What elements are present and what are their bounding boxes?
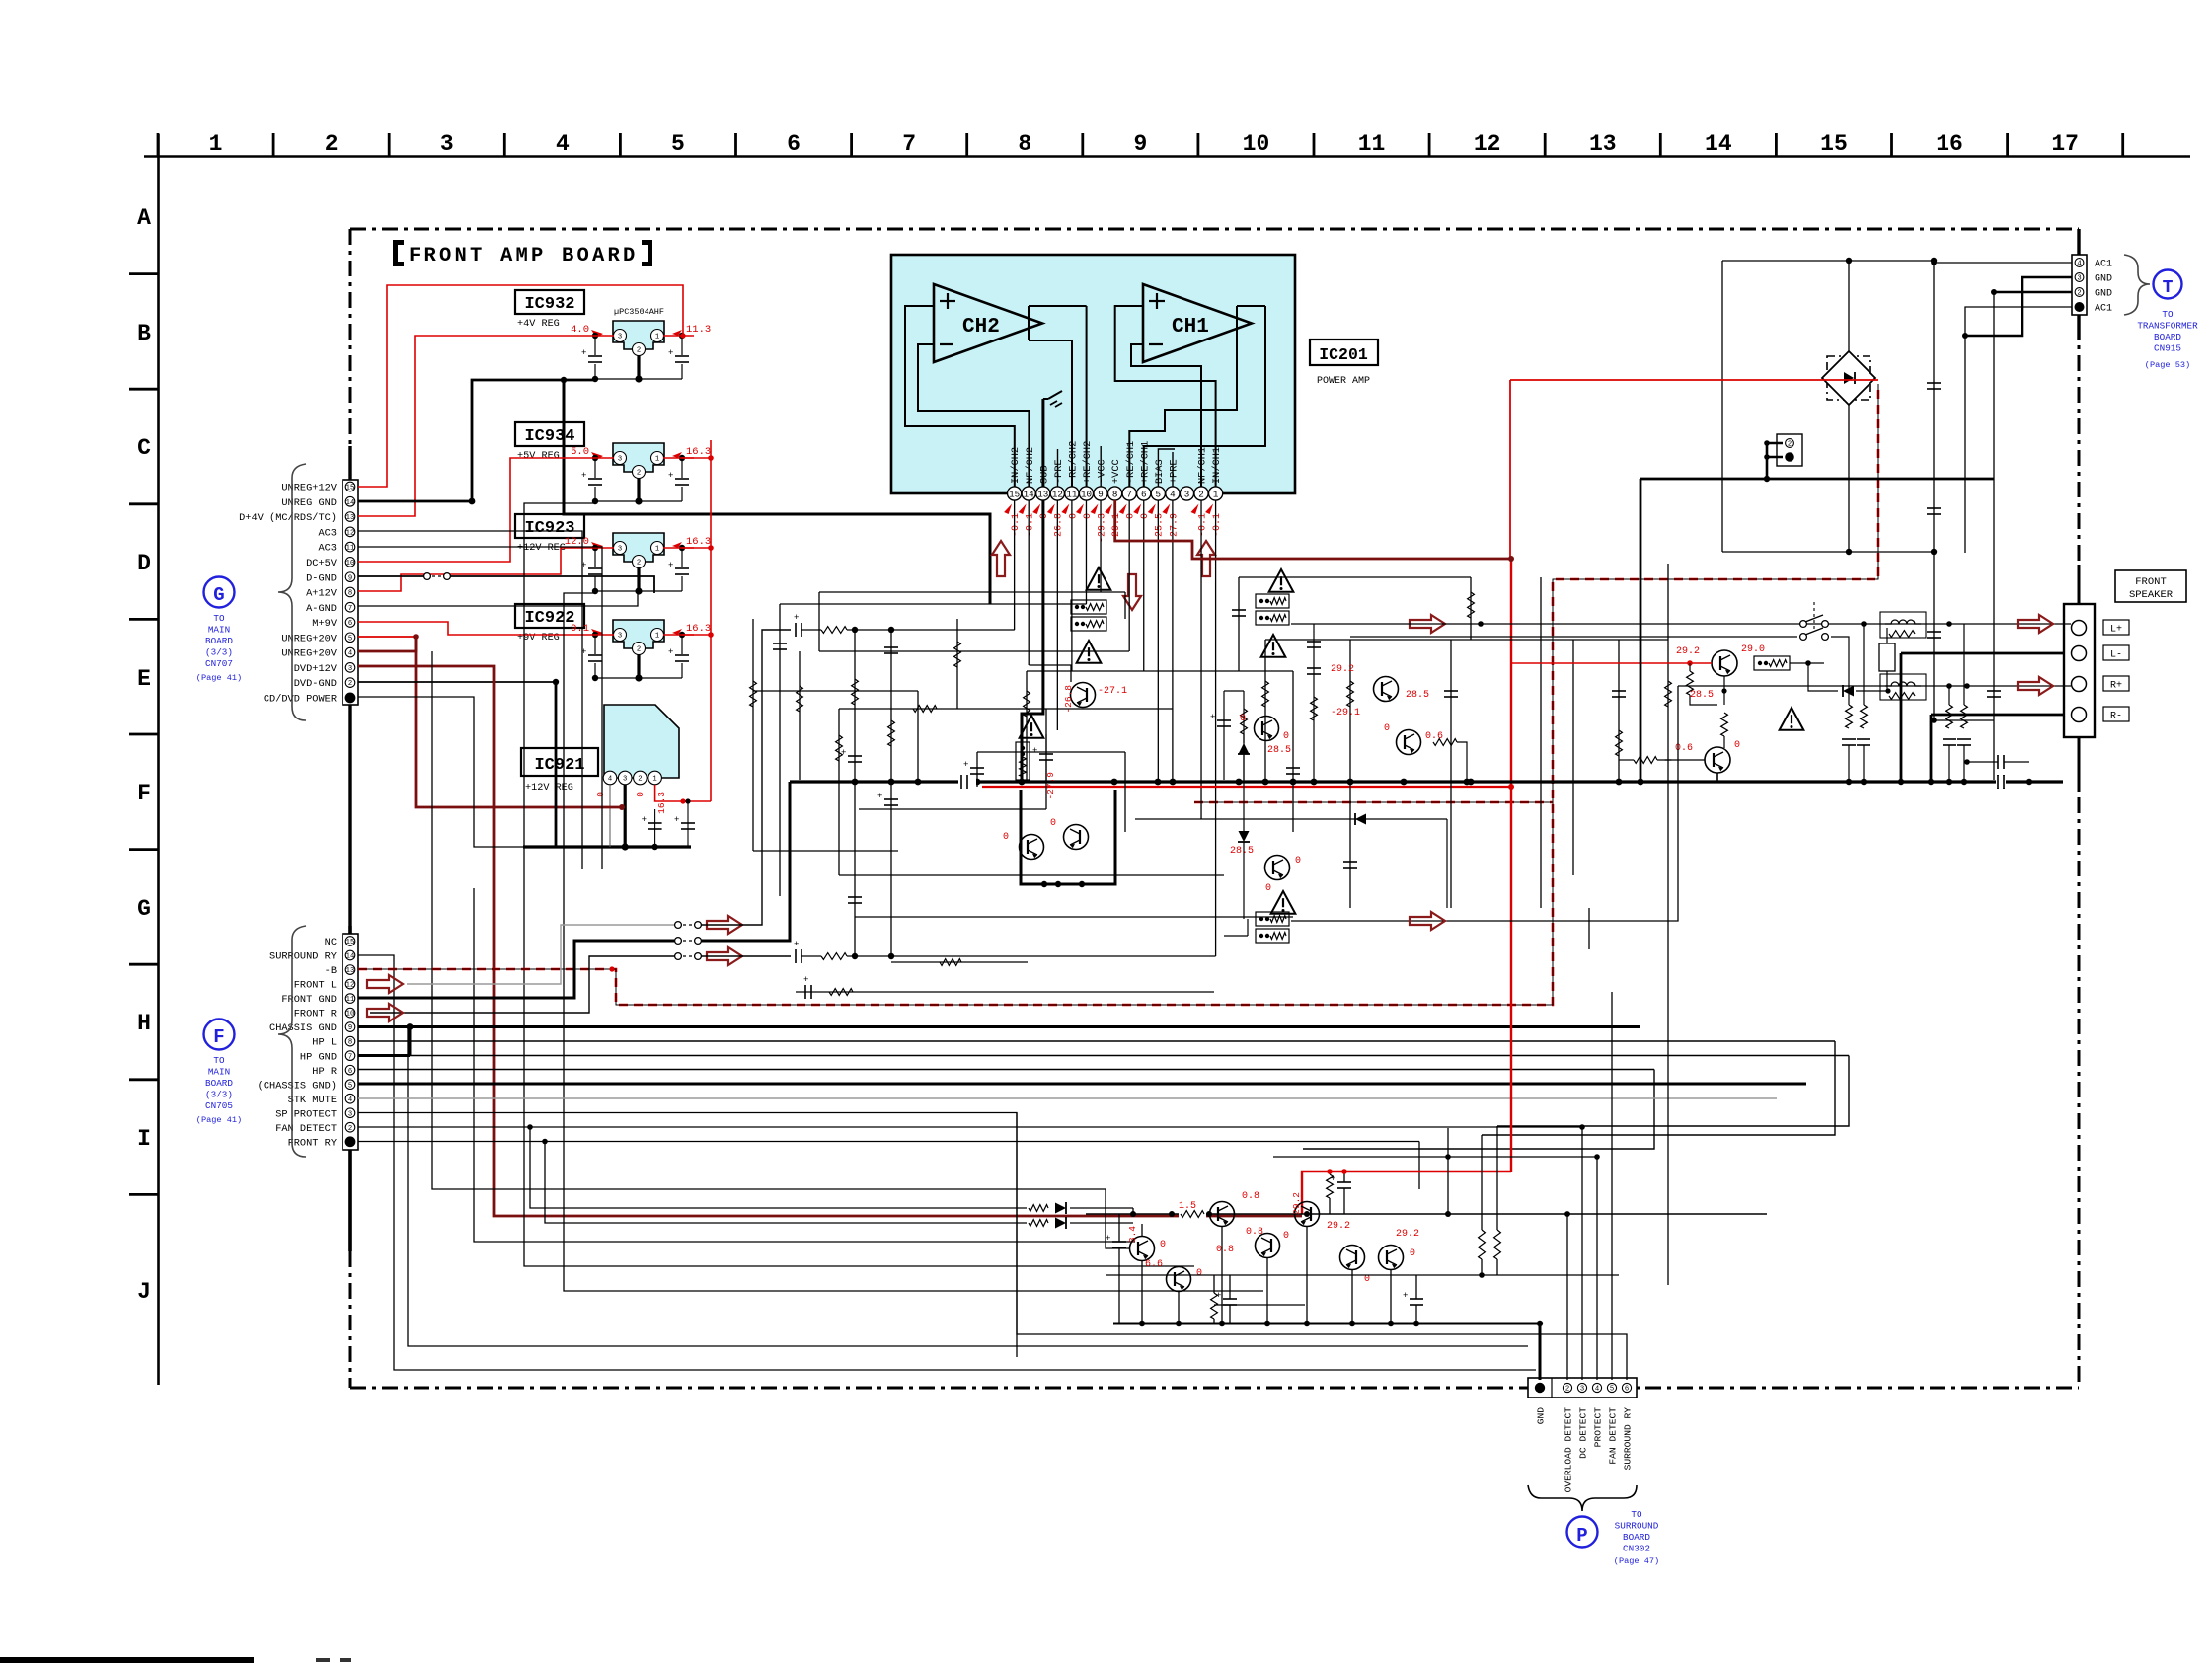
svg-text:13: 13 bbox=[1037, 489, 1048, 499]
svg-text:+5V REG: +5V REG bbox=[517, 451, 560, 462]
svg-text:2: 2 bbox=[325, 131, 339, 157]
pin 9 D-GND bbox=[345, 572, 355, 582]
resistor Q2 base bbox=[1634, 757, 1657, 764]
transistor Q mid3 bbox=[1020, 835, 1044, 860]
wire vertical link b bbox=[1581, 1128, 1583, 1157]
svg-text:0: 0 bbox=[595, 792, 606, 797]
svg-text:-B: -B bbox=[325, 965, 337, 977]
svg-text:+: + bbox=[1403, 1291, 1408, 1301]
svg-text:2: 2 bbox=[348, 1125, 352, 1133]
signal arrow R feed bbox=[1410, 912, 1445, 930]
wire aux row bbox=[891, 961, 1028, 963]
wire A+12V long red run bbox=[400, 574, 402, 591]
resistor bbox=[1241, 709, 1248, 734]
svg-text:2: 2 bbox=[1198, 489, 1204, 499]
IC932 pin 2 bbox=[633, 343, 646, 356]
fusible resistor bbox=[1071, 617, 1106, 631]
svg-text:3: 3 bbox=[618, 633, 622, 641]
wire relay R to coupling network bbox=[701, 955, 791, 957]
16.3V rail vertical bbox=[683, 800, 711, 802]
wire ground bus right extension bbox=[1668, 780, 2063, 783]
wire bus IC934 gnd drop bbox=[524, 503, 1194, 1266]
IC934 pin 3 bbox=[614, 452, 627, 465]
svg-text:0: 0 bbox=[1295, 856, 1301, 867]
wire red IC922 pin1 to 16.3V rail bbox=[682, 634, 711, 636]
wire IC201 pin 15 drop bbox=[1014, 500, 1016, 630]
svg-text:-26.8: -26.8 bbox=[1063, 685, 1074, 714]
wire F connector top stub bbox=[348, 926, 351, 934]
wire mesh left links to switch rows bbox=[858, 932, 860, 934]
svg-text:0: 0 bbox=[1283, 731, 1289, 742]
pin 7 HP GND bbox=[345, 1051, 355, 1061]
svg-text:16.3: 16.3 bbox=[656, 792, 667, 814]
svg-text:-0.1: -0.1 bbox=[1197, 513, 1208, 537]
wire IC201 pin5 BIAS stub bbox=[1158, 449, 1175, 487]
capacitor bbox=[970, 767, 984, 769]
wire SP PROTECT run bbox=[358, 1113, 1627, 1381]
svg-text:9: 9 bbox=[1133, 131, 1147, 157]
svg-text:14: 14 bbox=[1705, 131, 1732, 157]
wire IC201 pin8 +VCC red thick bbox=[1115, 500, 1511, 559]
pin 13 -B bbox=[345, 965, 355, 975]
capacitor loop right lower bbox=[1927, 507, 1941, 509]
wire CHASSIS GND bottom run bbox=[408, 1027, 1528, 1347]
svg-text:+: + bbox=[581, 471, 586, 481]
capacitor polarized bbox=[884, 798, 898, 800]
zobel resistor Lb bbox=[1863, 624, 1865, 705]
relay switch L2 bbox=[1800, 634, 1807, 641]
speaker zobel caps right bbox=[1997, 755, 1999, 769]
capacitor series on main bus bbox=[958, 775, 976, 789]
svg-text:15: 15 bbox=[346, 939, 355, 946]
wire top-right loop right bbox=[1933, 261, 1935, 552]
svg-text:A-GND: A-GND bbox=[306, 603, 337, 615]
wire Qd base feed bbox=[1106, 1189, 1129, 1248]
svg-text:+: + bbox=[668, 647, 673, 657]
svg-text:P: P bbox=[1576, 1525, 1587, 1547]
wire relay GND return to bus bbox=[701, 782, 790, 941]
resistor cluster r1 bbox=[1327, 1174, 1334, 1198]
speaker cap lower bbox=[1997, 775, 1999, 789]
wire STK MUTE run bbox=[358, 1097, 1777, 1099]
IC921 pin 4 bbox=[603, 771, 617, 785]
svg-text:M+9V: M+9V bbox=[312, 618, 338, 630]
svg-text:-25.5: -25.5 bbox=[1155, 513, 1166, 543]
signal arrow FRONT R pin bbox=[367, 1004, 403, 1021]
svg-text:16: 16 bbox=[1936, 131, 1963, 157]
wire DVD+12V thick red run bbox=[358, 666, 1302, 1216]
wire red D+4V to IC932 pin3 bbox=[358, 336, 595, 516]
svg-text:UNREG+20V: UNREG+20V bbox=[281, 633, 337, 644]
svg-text:3: 3 bbox=[348, 665, 352, 673]
wire bbox=[1292, 671, 1294, 832]
IC922 pin 1 bbox=[651, 629, 664, 642]
wire -B dashed branch bbox=[1194, 801, 1553, 804]
wire bbox=[1572, 640, 1574, 875]
wire IC922 left cap branch bbox=[594, 635, 596, 678]
svg-text:CN915: CN915 bbox=[2154, 343, 2181, 354]
wire FRONT R to relay bbox=[370, 956, 675, 1013]
wire bbox=[1349, 640, 1351, 908]
capacitor IC922 left bbox=[587, 654, 603, 663]
capacitor cluster c4 bbox=[1410, 1298, 1423, 1300]
svg-text:6: 6 bbox=[787, 131, 801, 157]
IC921 pin 1 bbox=[648, 771, 662, 785]
wire FRONT L to relay bbox=[407, 925, 675, 984]
wire bbox=[1667, 564, 1669, 1285]
svg-text:+: + bbox=[668, 561, 673, 570]
svg-text:D: D bbox=[137, 551, 151, 576]
svg-text:-0.1: -0.1 bbox=[1026, 513, 1036, 537]
svg-text:A+12V: A+12V bbox=[306, 588, 338, 600]
svg-text:4: 4 bbox=[608, 776, 612, 784]
wire bbox=[819, 650, 1129, 652]
wire red top feed bbox=[1510, 379, 1878, 381]
svg-text:+: + bbox=[877, 792, 882, 801]
svg-text:HP GND: HP GND bbox=[300, 1051, 337, 1063]
svg-text:3: 3 bbox=[1184, 489, 1190, 499]
wire DC DETECT to P3 bbox=[1581, 1127, 1583, 1380]
wire dark red feed into IC921 area bbox=[553, 806, 622, 809]
svg-text:2: 2 bbox=[348, 680, 352, 688]
pin 14 SURROUND RY bbox=[345, 950, 355, 960]
svg-text:4.0: 4.0 bbox=[571, 324, 589, 336]
wire R+ feed from mesh bbox=[1291, 686, 1678, 921]
svg-text:+: + bbox=[794, 940, 799, 949]
resistor bbox=[1262, 681, 1269, 707]
svg-text:CHASSIS GND: CHASSIS GND bbox=[269, 1022, 337, 1034]
svg-text:+: + bbox=[674, 815, 679, 825]
pin 7 A-GND bbox=[345, 602, 355, 612]
svg-text:29.2: 29.2 bbox=[1396, 1229, 1419, 1240]
wire IC934 pin2 to bus bbox=[637, 478, 640, 501]
transistor Qc bbox=[1295, 1202, 1320, 1227]
wire line with diode bbox=[1135, 818, 1447, 820]
wire speaker connector stub top bbox=[2078, 565, 2081, 604]
wire CD power drop 2 bbox=[474, 888, 1135, 1242]
IC201 pin 12 -PRE bbox=[1050, 487, 1064, 500]
wire UNREG GND to IC932 ground bus bbox=[358, 380, 596, 501]
svg-text:2: 2 bbox=[1788, 441, 1792, 449]
wire cluster main rail bbox=[1086, 1213, 1767, 1215]
svg-text:8: 8 bbox=[1018, 131, 1031, 157]
wire IC934 bus left hook bbox=[594, 502, 596, 504]
capacitor polarized bbox=[848, 755, 862, 757]
svg-text:29.2: 29.2 bbox=[1676, 646, 1700, 657]
wire (CHASSIS GND) thick run bbox=[358, 1083, 1806, 1086]
regulator IC932 label box bbox=[515, 290, 584, 314]
wire IC934 pin3 feed bbox=[595, 457, 614, 459]
wire Qe base link bbox=[1141, 1224, 1143, 1237]
svg-text:GND: GND bbox=[1536, 1407, 1547, 1425]
svg-text:9: 9 bbox=[1098, 489, 1104, 499]
wire bbox=[1026, 671, 1028, 780]
capacitor bbox=[1286, 767, 1300, 769]
svg-text:29.2: 29.2 bbox=[1331, 664, 1354, 675]
wire IC201 CH2 +input from pin15 bbox=[905, 306, 1015, 487]
svg-text:3: 3 bbox=[440, 131, 454, 157]
wire OVERLOAD DETECT drop bbox=[1566, 1214, 1568, 1380]
svg-text:6: 6 bbox=[1141, 489, 1147, 499]
svg-text:8: 8 bbox=[1112, 489, 1118, 499]
svg-text:29.1: 29.1 bbox=[1111, 513, 1122, 537]
svg-text:-0.1: -0.1 bbox=[1011, 513, 1022, 537]
svg-text:CN707: CN707 bbox=[205, 658, 233, 669]
terminal L+ bbox=[2072, 621, 2087, 636]
svg-text:8: 8 bbox=[348, 590, 352, 598]
wire bbox=[1264, 640, 1266, 780]
pin 10 FRONT R bbox=[345, 1008, 355, 1018]
wire cluster links bbox=[1221, 1227, 1223, 1323]
svg-text:9: 9 bbox=[348, 1024, 352, 1032]
svg-text:(Page 53): (Page 53) bbox=[2145, 360, 2190, 370]
svg-text:0: 0 bbox=[1240, 714, 1246, 724]
zobel resistor La bbox=[1848, 686, 1850, 705]
wire +VCC red vertical bbox=[1510, 559, 1512, 1172]
resistor series CH2 in bbox=[821, 627, 847, 634]
signal arrow up near pin15 bbox=[992, 541, 1010, 576]
wire R+ line bbox=[1678, 685, 2071, 687]
svg-text:3: 3 bbox=[618, 334, 622, 341]
wire bbox=[1239, 576, 1471, 578]
svg-text:-RE/CH1: -RE/CH1 bbox=[1125, 441, 1137, 484]
wire bbox=[799, 651, 801, 780]
connector CN915 (T) strip bbox=[2072, 255, 2087, 315]
wire UNREG GND long thick from reg area bbox=[471, 379, 473, 381]
wire IC934 pin1 out bbox=[663, 457, 694, 459]
svg-text:3: 3 bbox=[348, 1110, 352, 1118]
pin 15 NC bbox=[345, 937, 355, 946]
wire Q7 emitter resistor bbox=[1433, 739, 1457, 746]
wire IC201 pin 10 drop bbox=[1085, 500, 1087, 604]
wire AC3 pin11 run bbox=[358, 547, 602, 869]
svg-text:3.4: 3.4 bbox=[1127, 1226, 1138, 1243]
capacitor IC923 right bbox=[674, 567, 690, 576]
svg-text:10: 10 bbox=[1081, 489, 1092, 499]
wire T pin1 AC1 bbox=[1965, 307, 2072, 553]
svg-text:6.6: 6.6 bbox=[1145, 1259, 1163, 1270]
pin 6 SURROUND RY bbox=[1622, 1383, 1631, 1392]
transistor Q mid7 bbox=[1397, 730, 1421, 755]
wire link c bbox=[1075, 1139, 1077, 1214]
svg-text:0: 0 bbox=[1265, 883, 1271, 894]
wire IC922 pin3 feed bbox=[595, 634, 614, 636]
pin 4 AC1 bbox=[2075, 259, 2084, 267]
wire CD/DVD POWER run bbox=[358, 697, 523, 847]
IC932 pin 3 bbox=[614, 330, 627, 342]
pin 11 AC3 bbox=[345, 542, 355, 552]
wire column bbox=[1313, 624, 1315, 782]
wire SP PROTECT vertical part bbox=[1016, 1113, 1018, 1358]
resistor cluster r2 bbox=[1211, 1293, 1218, 1319]
svg-text:CH2: CH2 bbox=[962, 316, 1000, 339]
svg-text:0: 0 bbox=[1196, 1268, 1202, 1279]
regulator IC923 label box bbox=[515, 514, 584, 538]
signal arrow down near pin9 bbox=[1123, 574, 1141, 610]
wire IC923 pin1 out bbox=[663, 547, 694, 549]
svg-text:14: 14 bbox=[346, 499, 355, 507]
wire FRONT GND to relay bbox=[358, 941, 675, 998]
svg-text:MAIN: MAIN bbox=[208, 625, 230, 636]
svg-text:2: 2 bbox=[637, 347, 641, 355]
svg-text:11: 11 bbox=[346, 545, 355, 553]
board dash-dot border top bbox=[350, 228, 2079, 231]
signal arrow L+ bbox=[2018, 615, 2053, 633]
svg-text:6: 6 bbox=[348, 1068, 352, 1076]
wire F connector bottom stub bbox=[348, 1150, 351, 1251]
svg-text:5: 5 bbox=[1156, 489, 1162, 499]
resistor cluster series bbox=[1179, 1208, 1206, 1221]
pin 4 STK MUTE bbox=[345, 1094, 355, 1103]
svg-text:11: 11 bbox=[1066, 489, 1078, 499]
capacitor cluster c3 bbox=[1223, 1298, 1237, 1300]
wire A-GND run bbox=[358, 593, 638, 606]
IC201 pin 2 NF/CH1 bbox=[1194, 487, 1208, 500]
wire bbox=[1045, 709, 1047, 809]
capacitor aux bbox=[804, 985, 806, 999]
svg-text:5: 5 bbox=[348, 635, 352, 643]
wire -B black underlay bbox=[358, 384, 1878, 1005]
svg-text:0: 0 bbox=[1126, 513, 1137, 519]
svg-text:FRONT GND: FRONT GND bbox=[281, 994, 337, 1006]
svg-text:AC3: AC3 bbox=[318, 543, 337, 555]
connector FRONT SPEAKER block bbox=[2064, 604, 2095, 737]
svg-text:+: + bbox=[1106, 1234, 1110, 1244]
capacitor coupling CH1 in bbox=[795, 949, 797, 963]
wire comb drop a bbox=[1848, 746, 1850, 782]
svg-text:1.5: 1.5 bbox=[1179, 1201, 1196, 1212]
relay contact FRONT R bbox=[675, 953, 682, 960]
wire cluster ground bus bbox=[1113, 1323, 1540, 1325]
wire IC201 pin 5 drop bbox=[1157, 500, 1159, 782]
capacitor IC934 right bbox=[674, 478, 690, 487]
svg-text:L+: L+ bbox=[2110, 625, 2122, 636]
diode input 2 bbox=[1029, 1220, 1048, 1227]
wire bbox=[818, 592, 820, 651]
svg-text:12: 12 bbox=[346, 529, 355, 537]
signal arrow R+ bbox=[2018, 677, 2053, 695]
pin 8 A+12V bbox=[345, 587, 355, 597]
wire red IC923 pin3 out to A+12V bbox=[358, 548, 595, 591]
svg-text:9.1: 9.1 bbox=[571, 623, 589, 635]
svg-text:10: 10 bbox=[346, 560, 355, 567]
fusible resistor relay bbox=[1754, 656, 1790, 670]
relay coil bbox=[1879, 643, 1895, 671]
svg-text:-27.1: -27.1 bbox=[1098, 686, 1127, 697]
wire D-GND with inline switch bbox=[358, 575, 424, 577]
svg-text:CD/DVD POWER: CD/DVD POWER bbox=[264, 694, 337, 706]
wire cluster second rail bbox=[1106, 1274, 1619, 1276]
capacitor right col bbox=[1927, 631, 1941, 633]
svg-text:BOARD: BOARD bbox=[2154, 332, 2181, 342]
svg-text:A: A bbox=[137, 205, 151, 231]
node G to main board bbox=[204, 577, 235, 608]
resistor Q2 bias bbox=[1665, 759, 1672, 761]
svg-text:FAN DETECT: FAN DETECT bbox=[275, 1123, 337, 1135]
svg-text:6: 6 bbox=[1625, 1386, 1629, 1394]
svg-text:+RE/CH1: +RE/CH1 bbox=[1139, 441, 1151, 484]
svg-text:F: F bbox=[213, 1026, 224, 1048]
wire bridge top stub bbox=[1848, 261, 1850, 351]
transistor Qb bbox=[1256, 1234, 1280, 1258]
svg-text:16.3: 16.3 bbox=[686, 446, 711, 458]
svg-text:D+4V (MC/RDS/TC): D+4V (MC/RDS/TC) bbox=[239, 512, 337, 524]
svg-text:TO: TO bbox=[1631, 1509, 1642, 1520]
wire thick UNREG+20V run bbox=[358, 637, 416, 651]
resistor bbox=[1665, 681, 1672, 707]
svg-text:1: 1 bbox=[652, 776, 656, 784]
svg-text:FRONT RY: FRONT RY bbox=[288, 1137, 337, 1149]
wire thick bus right bbox=[1640, 478, 1994, 481]
svg-text:(CHASSIS GND): (CHASSIS GND) bbox=[258, 1080, 337, 1092]
svg-text:12: 12 bbox=[346, 982, 355, 990]
wire IC201 pin 12 drop bbox=[1056, 500, 1058, 730]
terminal R- bbox=[2072, 708, 2087, 722]
op-amp CH1 triangle bbox=[1143, 284, 1252, 362]
svg-text:7: 7 bbox=[902, 131, 916, 157]
IC932 pin 1 bbox=[651, 330, 664, 342]
wire D-GND continues bbox=[450, 576, 654, 593]
pin 1 GND bbox=[1535, 1383, 1545, 1393]
wire IC923 right cap branch bbox=[681, 548, 683, 591]
svg-text:0: 0 bbox=[1283, 1231, 1289, 1242]
svg-text:µPC3504AHF: µPC3504AHF bbox=[614, 307, 664, 317]
svg-text:IC934: IC934 bbox=[524, 427, 574, 446]
wire IC921 ground bus bbox=[523, 845, 691, 848]
wire 2-pin drop bbox=[1766, 457, 1769, 479]
svg-text:IC921: IC921 bbox=[534, 756, 584, 775]
wire Q2 emitter bbox=[1716, 773, 1718, 782]
wire cluster top line bbox=[1273, 1156, 1597, 1158]
wire top-right loop top bbox=[1722, 260, 1934, 262]
svg-text:11: 11 bbox=[1358, 131, 1386, 157]
capacitor bbox=[773, 643, 787, 644]
svg-text:3: 3 bbox=[2077, 275, 2081, 283]
svg-text:13: 13 bbox=[1589, 131, 1617, 157]
svg-text:29.2: 29.2 bbox=[1327, 1221, 1350, 1232]
svg-text:+: + bbox=[1331, 1174, 1335, 1184]
pin 5 (CHASSIS GND) bbox=[345, 1080, 355, 1090]
wire bbox=[839, 874, 1224, 876]
capacitor polarized bbox=[1039, 753, 1053, 755]
wire bbox=[753, 690, 918, 692]
resistor pair tall 2 bbox=[1494, 1230, 1501, 1259]
wire ground bus thick mid bbox=[790, 780, 1668, 783]
wire HP L drop bbox=[1482, 1041, 1835, 1135]
pin 12 FRONT L bbox=[345, 979, 355, 989]
capacitor coupling CH2 in bbox=[795, 623, 797, 637]
pin 2 FAN DETECT bbox=[345, 1122, 355, 1132]
svg-text:5: 5 bbox=[1610, 1386, 1614, 1394]
svg-text:TO: TO bbox=[213, 1055, 225, 1066]
svg-text:(Page 47): (Page 47) bbox=[1614, 1556, 1659, 1566]
brace for P connector bbox=[1528, 1485, 1637, 1511]
wire thick DVD+20V feed bbox=[358, 636, 416, 638]
svg-text:+PRE: +PRE bbox=[1168, 459, 1180, 484]
svg-text:DVD+12V: DVD+12V bbox=[294, 663, 338, 675]
svg-text:GND: GND bbox=[2095, 289, 2112, 300]
svg-text:2: 2 bbox=[637, 470, 641, 478]
svg-text:0: 0 bbox=[1050, 818, 1056, 829]
resistor to Q2 bbox=[1721, 713, 1728, 736]
wire -B to mesh link bbox=[609, 966, 614, 971]
svg-text:4: 4 bbox=[348, 1096, 352, 1104]
wire FAN DETECT run bbox=[358, 1126, 1582, 1128]
wire right column 2 bbox=[1993, 292, 1995, 780]
zobel resistor Ra bbox=[1948, 686, 1950, 705]
svg-text:0: 0 bbox=[1003, 832, 1009, 843]
pin 5 UNREG+20V bbox=[345, 633, 355, 643]
